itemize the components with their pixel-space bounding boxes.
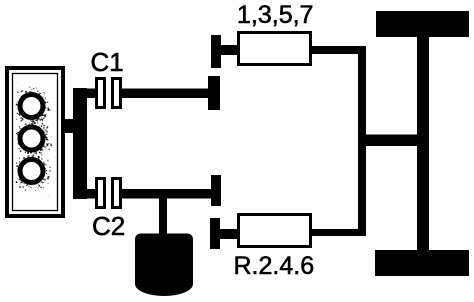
svg-text:R.2.4.6: R.2.4.6 xyxy=(234,252,315,280)
svg-text:1,3,5,7: 1,3,5,7 xyxy=(237,1,313,29)
svg-text:C2: C2 xyxy=(92,211,125,241)
svg-text:C1: C1 xyxy=(91,47,124,77)
